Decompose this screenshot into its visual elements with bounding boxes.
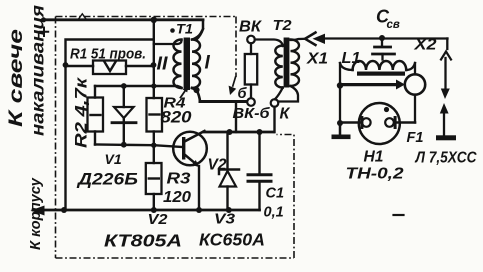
zener V3 xyxy=(226,132,228,168)
resistor R4 xyxy=(147,98,163,132)
svg-text:F1: F1 xyxy=(407,130,424,146)
enclosure boundary dash-dot left xyxy=(55,17,57,259)
resistor R2 xyxy=(94,86,96,145)
wire: corner down to T1 winding I top xyxy=(197,20,204,40)
transformer T2 secondary xyxy=(291,40,300,86)
enclosure boundary dash-dot right xyxy=(277,135,295,259)
tick on boundary xyxy=(79,14,87,19)
svg-text:ТН-0,2: ТН-0,2 xyxy=(346,166,404,183)
H1 left pin xyxy=(362,118,371,127)
L1 core bar xyxy=(357,72,405,76)
svg-text:820: 820 xyxy=(161,109,193,127)
node ground/emitter xyxy=(196,207,202,213)
node H1 pin/ground lead xyxy=(337,120,343,126)
plug jack circle xyxy=(405,74,425,94)
svg-text:II: II xyxy=(157,54,169,74)
arrow to T1 core xyxy=(181,91,186,98)
resistor Rб xyxy=(250,43,252,98)
wire: L1 right to frame xyxy=(406,63,415,70)
resistor R1 xyxy=(66,65,154,68)
node at supply/vertical junction xyxy=(151,17,157,23)
node bus/feed junction xyxy=(151,83,156,88)
svg-text:R3: R3 xyxy=(167,171,191,188)
enclosure boundary dash-dot bottom xyxy=(56,257,295,259)
node ground/left vertical xyxy=(61,207,67,213)
svg-text:К: К xyxy=(280,106,291,123)
svg-text:V1: V1 xyxy=(105,151,122,167)
terminal ВК xyxy=(247,36,255,44)
svg-text:Н1: Н1 xyxy=(364,149,384,166)
wire: left frame vertical xyxy=(339,63,341,135)
svg-text:R2 4,7к: R2 4,7к xyxy=(73,76,91,148)
wire: L1 left to frame xyxy=(340,63,353,70)
T1 winding I bottom dot xyxy=(193,87,199,93)
transformer T1 core xyxy=(184,38,190,91)
lamp H1 body xyxy=(359,103,400,144)
capacitor C1 xyxy=(258,132,260,174)
connector X1 xyxy=(305,33,316,46)
wire: base bus xyxy=(95,145,182,148)
transformer T1 winding II xyxy=(174,40,182,88)
terminal ВК-Б xyxy=(247,98,255,106)
diode V1 xyxy=(123,86,125,107)
transformer T2 core xyxy=(284,38,290,88)
plus polarity mark xyxy=(40,28,48,37)
resistor R3 xyxy=(153,145,155,163)
svg-text:б: б xyxy=(238,86,248,102)
wire: left vertical to ground xyxy=(64,66,66,210)
wire: T2 secondary top to X1 xyxy=(291,39,306,40)
svg-text:Д226Б: Д226Б xyxy=(76,170,138,189)
svg-text:ВК-б: ВК-б xyxy=(233,105,271,122)
svg-text:Х2: Х2 xyxy=(413,37,437,54)
svg-text:Т2: Т2 xyxy=(273,17,293,34)
wire: upper bus R2/V1 tops to T1 winding II bottom xyxy=(95,86,182,88)
inductor L1 xyxy=(353,61,407,70)
svg-text:С1: С1 xyxy=(266,186,285,202)
wire: to ВК-Б terminal xyxy=(200,100,248,103)
resistor R1 bypass loop xyxy=(66,40,154,65)
H1 right pin xyxy=(385,118,394,127)
wire: winding I bottom lead xyxy=(192,88,200,102)
wire: collector rail y132 xyxy=(204,131,275,134)
node L1 frame left xyxy=(337,82,343,88)
minus polarity mark xyxy=(394,214,404,216)
wire: б node down to protection rail xyxy=(235,102,237,133)
wire: supply from glow plug (top) xyxy=(43,18,203,21)
svg-text:V2: V2 xyxy=(208,157,227,174)
node B xyxy=(151,62,157,68)
H1 inner dot xyxy=(384,107,389,112)
wire: ground bus xyxy=(33,209,260,212)
svg-text:120: 120 xyxy=(163,189,191,206)
wire: main vertical feed xyxy=(153,20,155,98)
transformer T1 winding I xyxy=(192,40,200,88)
node V1 bottom xyxy=(121,142,127,148)
ground chassis symbol xyxy=(339,123,341,135)
transformer T2 primary xyxy=(275,46,282,88)
wire: T2 secondary bottom to К xyxy=(278,86,298,102)
svg-text:V3: V3 xyxy=(214,211,236,228)
node Ссв tap xyxy=(379,35,385,41)
connector X2 upper xyxy=(446,39,448,50)
svg-text:накаливания: накаливания xyxy=(28,5,48,136)
V2 collector xyxy=(185,131,205,142)
enclosure boundary dash-dot branch to point б xyxy=(235,17,237,78)
node R4/R3 junction xyxy=(151,143,156,148)
wire: right frame vertical xyxy=(414,63,416,123)
node ground/R3 xyxy=(151,207,157,213)
terminal blob supply wire xyxy=(41,17,46,22)
connector X2 lower with chassis bar xyxy=(440,103,449,114)
svg-text:V2: V2 xyxy=(148,211,169,228)
svg-text:I: I xyxy=(205,53,211,74)
wire: top right rail xyxy=(318,37,448,39)
T1 polarity dot xyxy=(170,28,175,33)
terminal К xyxy=(271,99,279,107)
node rail/V3 xyxy=(227,129,233,135)
transistor V2 xyxy=(173,132,207,166)
node ground/V3 xyxy=(226,207,232,213)
V2 emitter with arrow xyxy=(185,155,197,165)
node rail/C1 xyxy=(257,129,263,135)
wire: T2 primary bottom to К xyxy=(275,88,283,100)
node A xyxy=(63,62,69,68)
svg-text:КТ805А: КТ805А xyxy=(104,231,182,251)
arrow to plug jack xyxy=(341,83,397,86)
wire: T1 winding I top to supply corner xyxy=(192,29,203,40)
svg-text:К свече: К свече xyxy=(6,28,27,127)
wire: К terminal down to rail xyxy=(273,107,275,132)
svg-text:Х1: Х1 xyxy=(306,51,328,68)
svg-text:св: св xyxy=(387,19,400,31)
svg-text:L1: L1 xyxy=(342,50,361,67)
wire: ВК to T2 primary top xyxy=(255,40,283,47)
svg-text:ВК: ВК xyxy=(239,19,263,36)
node V1 top xyxy=(121,83,127,89)
svg-text:Л 7,5ХСС: Л 7,5ХСС xyxy=(415,150,478,167)
enclosure boundary dash-dot top xyxy=(56,16,237,18)
svg-text:0,1: 0,1 xyxy=(264,205,284,221)
wire: T1 winding II top lead xyxy=(154,41,182,45)
svg-text:Т1: Т1 xyxy=(176,21,193,37)
svg-text:КС650А: КС650А xyxy=(199,230,265,250)
terminal arrow to chassis xyxy=(31,206,45,216)
